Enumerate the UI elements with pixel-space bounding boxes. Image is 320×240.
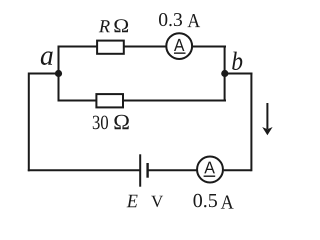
label: 0.5 (ammeter A2 reading) bbox=[194, 194, 218, 208]
label: node name b bbox=[232, 52, 242, 70]
wire: top branch, node a to resistor R bbox=[58, 46, 98, 48]
wire: ammeter A2 to right rail bbox=[224, 169, 252, 171]
label: ohm unit for R bbox=[114, 19, 128, 32]
wire: middle branch, node a to resistor 30 ohm bbox=[58, 100, 98, 102]
label: 0.3 (ammeter A1 reading) bbox=[159, 13, 182, 26]
label: A unit for 0.5 bbox=[221, 196, 234, 209]
ammeter A1 (reads 0.3 A) bbox=[166, 33, 192, 59]
wire: node a up to top branch bbox=[58, 47, 60, 75]
resistor 30 ohm (box) bbox=[96, 94, 123, 107]
wire: middle branch up to node b bbox=[224, 73, 226, 102]
wire: right vertical rail of outer loop bbox=[250, 73, 252, 172]
wire: bottom rail, left segment to battery bbox=[28, 169, 140, 171]
battery E: long positive plate bbox=[139, 154, 141, 186]
label: 30 (resistor value) bbox=[93, 116, 108, 130]
wire: node b to right rail bbox=[225, 73, 252, 75]
wire: ammeter A1 to node b bbox=[192, 46, 226, 48]
ammeter A2 (reads 0.5 A) bbox=[197, 157, 223, 183]
wire: resistor R to ammeter A1 bbox=[124, 46, 167, 48]
label: R (resistance symbol) bbox=[99, 20, 110, 32]
label: node name a bbox=[41, 51, 53, 65]
wire: top branch down to node b bbox=[224, 46, 226, 75]
battery E: short negative plate bbox=[146, 163, 148, 178]
current direction arrow (downward) beside right rail bbox=[262, 103, 272, 135]
wire: resistor 30 ohm to node b bbox=[123, 100, 226, 102]
label: V unit for E bbox=[151, 196, 163, 207]
node b junction dot bbox=[221, 70, 228, 77]
wire: left vertical rail of outer loop bbox=[28, 73, 30, 172]
node a junction dot bbox=[55, 70, 62, 77]
label: ohm unit for 30 bbox=[114, 115, 128, 129]
wire: battery to ammeter A2 bbox=[148, 169, 197, 171]
resistor R (box) bbox=[97, 41, 124, 54]
label: E (emf symbol) bbox=[127, 195, 138, 208]
label: A unit for 0.3 bbox=[188, 14, 201, 27]
wire: node a down to middle branch bbox=[58, 73, 60, 102]
wire: horizontal from node a left to the outer loop bbox=[29, 73, 59, 75]
